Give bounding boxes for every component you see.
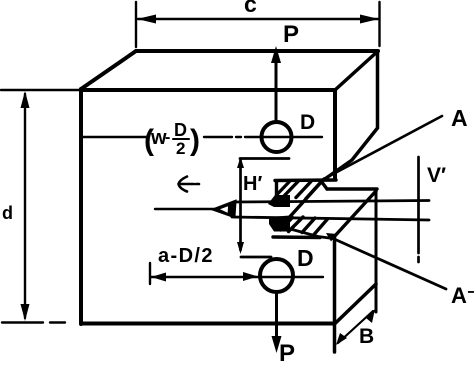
svg-text:D: D: [297, 245, 314, 271]
svg-text:A⁻: A⁻: [451, 283, 474, 308]
dimension c right arrowhead: [360, 15, 379, 24]
upper knife edge hatch 3: [306, 183, 321, 199]
block top back edge: [136, 49, 378, 53]
block front face bottom edge: [81, 322, 335, 326]
svg-text:B: B: [359, 325, 374, 348]
svg-text:2: 2: [176, 139, 185, 158]
label (W-D/2) fraction bar: [173, 138, 189, 140]
lower knife edge hatch 2: [302, 218, 315, 233]
notch mouth back top edge connector: [321, 181, 327, 189]
dimension a-D/2 right arrowhead: [243, 272, 258, 281]
block front right edge upper: [333, 90, 337, 179]
block front face top edge: [81, 88, 335, 92]
dimension c line: [138, 18, 378, 20]
dimension c left arrowhead: [137, 15, 156, 24]
block front right edge lower with extension: [333, 237, 337, 352]
crack direction arrow: [179, 177, 200, 192]
block top-left depth diagonal: [81, 51, 136, 89]
dimension (W-D/2) line right part: [204, 136, 232, 138]
slot upper line: [234, 201, 429, 203]
upper knife edge solid section: [268, 195, 290, 207]
svg-text:D: D: [174, 120, 187, 140]
block back right edge upper with bend to notch mouth: [322, 51, 378, 181]
dimension d top arrowhead: [21, 91, 30, 108]
dimension B upper arrowhead: [366, 309, 375, 323]
svg-text:D: D: [300, 111, 315, 134]
dimension H prime top arrowhead: [237, 157, 244, 168]
lower hole centerline with dimension a-D/2: [151, 276, 324, 278]
dimension c right extension line: [378, 2, 380, 46]
dimension (W-D/2) line left part: [81, 136, 146, 138]
svg-text:A: A: [451, 105, 468, 131]
crack tip triangle white core: [220, 206, 228, 213]
dimension a-D/2 left tick: [149, 263, 151, 284]
block top-right depth diagonal: [335, 51, 378, 90]
notch mouth back right diagonal: [333, 191, 376, 238]
lower mouth junction blob: [326, 233, 337, 242]
lower knife edge hatch 3: [314, 219, 328, 235]
upper knife edge tab top edge: [275, 178, 336, 182]
dimension B line: [338, 311, 373, 343]
upper knife edge hatch 2: [296, 182, 311, 198]
load arrow P bottom shaft: [275, 294, 278, 341]
dimension H prime bottom arrowhead: [237, 242, 244, 254]
dimension H prime line: [239, 160, 242, 250]
load arrow P bottom head: [272, 336, 282, 353]
svg-text:H′: H′: [243, 173, 262, 195]
svg-text:V′: V′: [427, 164, 446, 187]
svg-text:a-D/2: a-D/2: [158, 245, 214, 267]
dimension V prime line: [417, 157, 420, 262]
svg-text:P: P: [283, 21, 299, 48]
lower pin hole: [260, 259, 293, 292]
upper knife edge tab left edge: [275, 181, 278, 197]
notch mouth left depth diagonal: [281, 179, 324, 227]
crack line: [155, 208, 215, 210]
load arrow P top head: [271, 46, 281, 63]
block bottom-right depth diagonal: [335, 284, 377, 324]
lower knife edge hatch 1: [289, 217, 304, 232]
dimension c left extension line: [135, 2, 137, 47]
svg-text:): ): [190, 124, 200, 157]
leader line A prime: [281, 227, 446, 290]
dimension d bottom arrowhead: [21, 304, 30, 321]
dimension B lower arrowhead: [336, 333, 347, 345]
top pin hole: [262, 122, 292, 152]
dimension a-D/2 left arrowhead: [151, 273, 166, 282]
dimension H prime top arm: [240, 157, 289, 160]
notch mouth back top edge: [327, 187, 377, 190]
svg-text:c: c: [244, 0, 257, 17]
block back right edge lower with extension: [375, 189, 378, 312]
block front face left edge: [79, 89, 83, 324]
dimension d line: [24, 94, 26, 318]
dimension d top extension: [1, 89, 79, 91]
dimension d bottom extension dashed: [2, 321, 65, 323]
svg-text:P: P: [279, 340, 295, 367]
top hole centerline: [236, 136, 322, 138]
upper knife edge hatch 0: [277, 182, 290, 195]
lower knife edge solid section: [269, 216, 290, 232]
svg-text:-: -: [165, 129, 170, 146]
lower knife edge tab bottom edge: [273, 235, 320, 239]
load arrow P top shaft: [275, 58, 278, 121]
dimension H prime bottom arm: [241, 256, 271, 259]
crack tip triangle: [214, 202, 235, 217]
leader line A: [320, 116, 442, 181]
lower knife edge hatch 0: [281, 218, 293, 231]
upper knife edge hatch 1: [284, 182, 299, 197]
svg-text:d: d: [2, 203, 13, 223]
slot lower line: [232, 217, 429, 220]
